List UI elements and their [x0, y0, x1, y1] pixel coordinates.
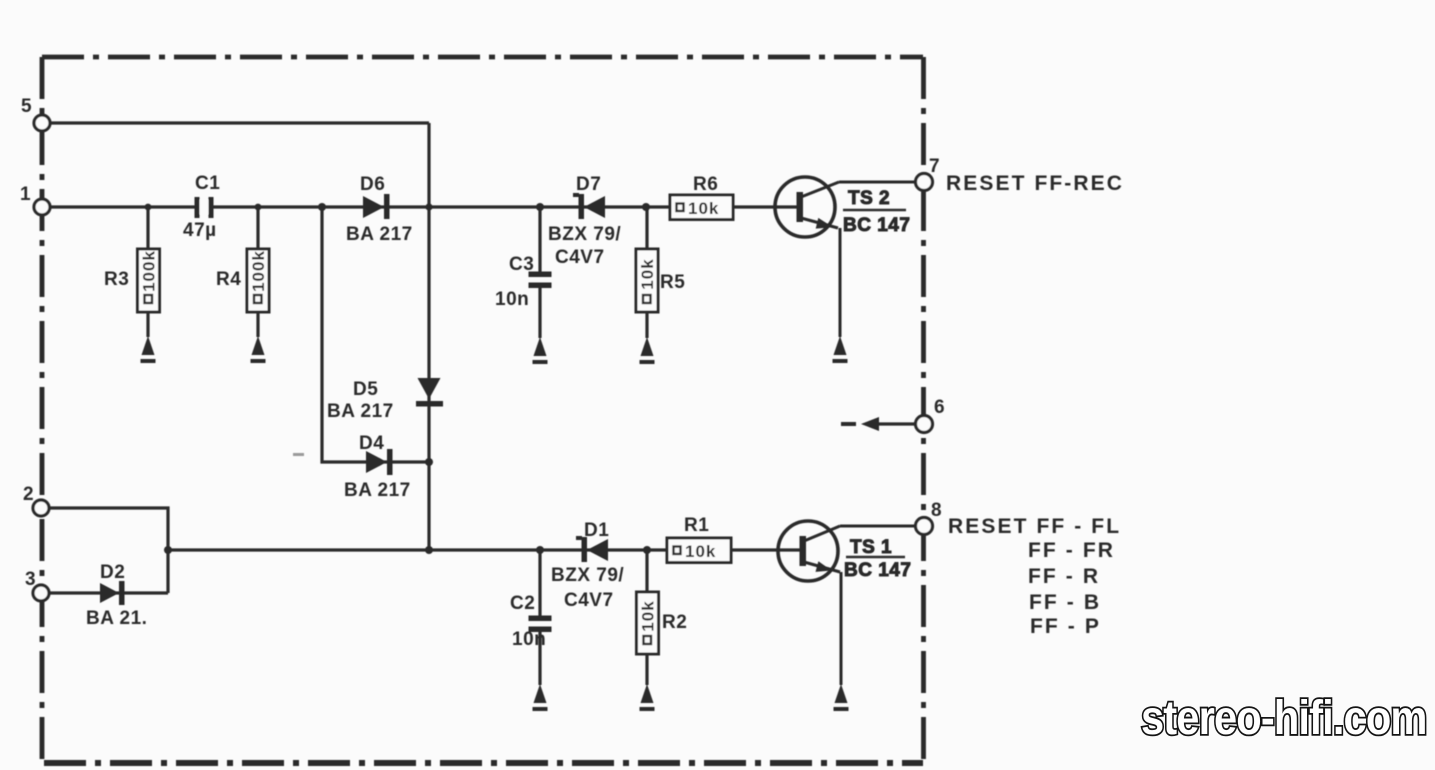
svg-text:RESET FF-REC: RESET FF-REC [946, 172, 1124, 195]
resistor R4 100k [216, 249, 269, 312]
capacitor C1 47u [183, 173, 220, 241]
stray mark near D4 wire [293, 453, 304, 456]
svg-text:C2: C2 [510, 593, 535, 614]
wire TS2 collector to pin 7 [839, 181, 916, 184]
wire from pin 2 [49, 508, 168, 593]
zener diode D1 BZX79/C4V7 [551, 520, 624, 611]
terminal pin 3 [25, 569, 49, 601]
terminal pin 7 [916, 156, 940, 191]
svg-text:R2: R2 [662, 612, 687, 633]
terminal pin 8 [916, 500, 942, 535]
svg-text:R1: R1 [684, 515, 709, 536]
svg-text:3: 3 [25, 569, 36, 590]
svg-text:10k: 10k [685, 542, 716, 561]
capacitor C2 10n [510, 593, 552, 650]
svg-text:C3: C3 [509, 254, 534, 275]
wire net from pin 5 (horizontal) [50, 121, 429, 124]
wire bottom net from node to TS1 base [168, 548, 800, 551]
ground below C3 [533, 337, 548, 364]
terminal pin 5 [21, 96, 50, 131]
svg-text:10k: 10k [639, 600, 658, 631]
svg-text:10k: 10k [638, 258, 657, 289]
svg-text:10k: 10k [688, 199, 719, 218]
ground below R5 [640, 337, 655, 364]
svg-text:10n: 10n [512, 629, 546, 650]
wire R4 drop [256, 207, 259, 337]
wire C2 drop [538, 550, 541, 685]
svg-text:BA 217: BA 217 [327, 401, 394, 422]
terminal pin 6 [916, 397, 945, 433]
svg-text:C4V7: C4V7 [564, 590, 614, 611]
resistor R1 10k [667, 515, 731, 563]
svg-text:BA 217: BA 217 [344, 480, 411, 501]
transistor TS2 BC147 [775, 177, 910, 237]
svg-text:100k: 100k [249, 250, 268, 292]
wire branch to D4 [322, 207, 429, 462]
svg-text:8: 8 [931, 500, 942, 521]
junction dots [145, 203, 651, 554]
svg-text:BA 217: BA 217 [346, 224, 413, 245]
resistor R6 10k [670, 174, 733, 220]
svg-text:100k: 100k [140, 250, 159, 292]
watermark stereo-hifi.com [1141, 690, 1427, 744]
svg-text:BZX 79/: BZX 79/ [548, 224, 621, 245]
svg-text:10n: 10n [495, 289, 529, 310]
transistor TS1 BC147 [778, 521, 911, 581]
svg-text:FF - B: FF - B [1029, 591, 1101, 614]
diode D4 BA217 [344, 433, 411, 501]
svg-text:6: 6 [934, 397, 945, 418]
svg-text:R4: R4 [216, 269, 241, 290]
resistor R2 10k [637, 592, 688, 654]
svg-text:stereo-hifi.com: stereo-hifi.com [1141, 690, 1427, 744]
svg-text:R3: R3 [104, 269, 129, 290]
svg-text:RESET FF - FL: RESET FF - FL [948, 515, 1121, 538]
svg-text:47µ: 47µ [183, 220, 217, 241]
svg-text:2: 2 [23, 484, 34, 505]
wire TS1 emitter down [840, 572, 843, 685]
ground below R3 [141, 336, 156, 363]
ground below C2 [533, 684, 548, 711]
svg-text:R6: R6 [693, 174, 718, 195]
arrow at pin 6 [841, 417, 915, 431]
svg-text:5: 5 [21, 96, 32, 117]
svg-text:D7: D7 [576, 174, 601, 195]
svg-text:1: 1 [20, 184, 31, 205]
diode D5 BA217 (vertical, pointing down) [327, 378, 443, 422]
svg-text:BA 21.: BA 21. [86, 608, 147, 629]
diode D2 BA217 [86, 562, 147, 629]
diode D6 BA217 [346, 174, 413, 245]
wire from pin 3 through D2 [49, 591, 168, 594]
svg-text:TS 2: TS 2 [848, 188, 890, 209]
resistor R5 10k [636, 249, 685, 312]
capacitor C3 10n [495, 254, 552, 310]
wire net from pin 1 (top horizontal rail) [50, 205, 797, 208]
svg-text:D4: D4 [359, 433, 384, 454]
svg-text:FF - R: FF - R [1028, 565, 1100, 588]
wire R3 drop [146, 207, 149, 337]
svg-text:D6: D6 [360, 174, 385, 195]
ground below TS2 emitter [833, 336, 848, 363]
wire vertical branch x=429 through D5 down to bottom net [427, 123, 430, 550]
ground below R2 [640, 684, 655, 711]
wire TS1 collector to pin 8 [840, 525, 916, 528]
terminal pin 1 [20, 184, 50, 215]
svg-text:FF - FR: FF - FR [1028, 539, 1115, 562]
svg-text:TS 1: TS 1 [850, 537, 892, 558]
wire C3 drop [538, 207, 541, 338]
svg-text:BC 147: BC 147 [844, 560, 911, 581]
resistor R3 100k [104, 249, 160, 312]
svg-text:FF - P: FF - P [1030, 615, 1101, 638]
svg-text:D5: D5 [353, 379, 378, 400]
svg-text:7: 7 [929, 156, 940, 177]
svg-text:BZX 79/: BZX 79/ [551, 565, 624, 586]
svg-text:D1: D1 [584, 520, 609, 541]
wire TS2 emitter down [839, 228, 842, 337]
wire R5 drop [645, 207, 648, 338]
svg-text:C4V7: C4V7 [555, 247, 605, 268]
terminal pin 2 [23, 484, 49, 516]
svg-text:D2: D2 [100, 562, 125, 583]
wire R2 drop [645, 550, 648, 685]
zener diode D7 BZX79/C4V7 [548, 174, 621, 268]
ground below R4 [251, 336, 266, 363]
svg-text:C1: C1 [195, 173, 220, 194]
svg-text:BC 147: BC 147 [843, 215, 910, 236]
ground below TS1 emitter [834, 684, 849, 711]
svg-text:R5: R5 [660, 272, 685, 293]
